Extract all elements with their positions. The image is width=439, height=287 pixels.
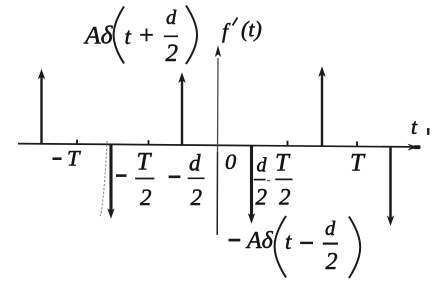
speck artifact top right — [427, 128, 430, 135]
svg-text:d: d — [257, 155, 268, 177]
node tick T/2 — [287, 141, 289, 146]
svg-text:t: t — [285, 229, 292, 254]
label -Adelta(t-d/2) bottom — [229, 216, 361, 278]
svg-text:d: d — [189, 151, 201, 176]
svg-text:2: 2 — [166, 40, 179, 67]
svg-text:2: 2 — [326, 249, 338, 275]
svg-text:(t): (t) — [241, 17, 262, 42]
label -T/2 - d/2 under first down arrow — [116, 149, 205, 211]
label T/2 right of d/2 — [275, 150, 293, 210]
svg-text:t: t — [411, 114, 418, 139]
svg-text:T: T — [350, 150, 366, 177]
label -T under axis — [53, 146, 82, 171]
impulse down arrow at t=T+d/2 — [387, 147, 394, 227]
node tick -T — [76, 140, 78, 145]
svg-text:2: 2 — [279, 185, 291, 210]
svg-text:+: + — [138, 21, 156, 50]
svg-text:T: T — [67, 146, 81, 171]
stray pencil mark near first down arrow — [100, 141, 107, 216]
impulse up arrow at t=-T-d/2 — [38, 69, 45, 145]
label Adelta(t+d/2) top-left — [83, 6, 197, 68]
impulse up arrow at t=T-d/2 — [318, 66, 325, 146]
label d/2 right of origin — [254, 155, 270, 210]
svg-text:d: d — [166, 7, 177, 29]
svg-text:T: T — [275, 150, 291, 177]
node f'(t) (axis label) — [222, 17, 262, 44]
svg-text:Aδ: Aδ — [83, 21, 114, 50]
node tick T — [356, 141, 358, 146]
svg-text:2: 2 — [191, 185, 203, 210]
wire t-axis (horizontal axis, slight scan tilt) — [18, 144, 421, 151]
svg-text:0: 0 — [225, 149, 236, 174]
wire f'(t)-axis (vertical axis) — [215, 45, 221, 235]
impulse down arrow at t=-T+d/2 — [107, 144, 114, 219]
node tick -T/2 — [148, 140, 150, 145]
svg-text:t: t — [125, 24, 132, 49]
svg-text:2: 2 — [256, 185, 268, 210]
svg-text:d: d — [325, 218, 336, 240]
svg-text:Aδ: Aδ — [245, 228, 274, 254]
svg-text:T: T — [137, 149, 153, 176]
impulse up arrow at t=-d/2 — [178, 72, 185, 145]
svg-text:2: 2 — [140, 185, 152, 210]
impulse down arrow at t=d/2 — [248, 145, 255, 223]
